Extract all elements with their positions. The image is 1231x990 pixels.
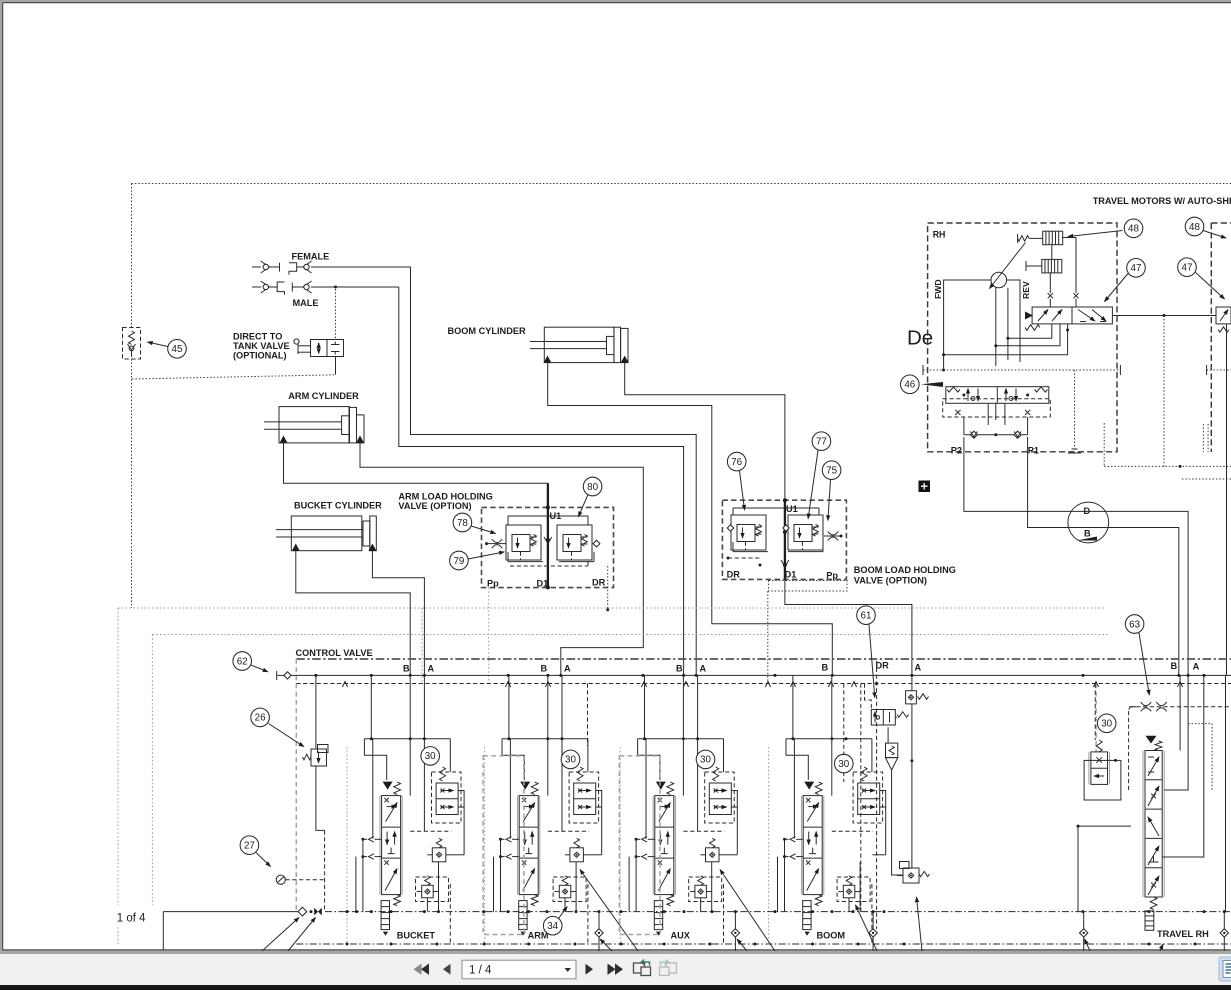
- label 26: [251, 708, 304, 746]
- svg-text:BUCKET: BUCKET: [397, 931, 436, 941]
- svg-text:Pp: Pp: [487, 578, 499, 588]
- svg-text:FWD: FWD: [933, 279, 943, 299]
- cylinder BUCKET: [276, 501, 382, 551]
- svg-text:A: A: [564, 664, 571, 674]
- svg-text:Pp: Pp: [826, 570, 838, 580]
- svg-text:De: De: [907, 327, 933, 350]
- wire 47 output to LH: [1112, 314, 1216, 466]
- svg-text:47: 47: [1182, 263, 1193, 274]
- wire dotted circuit boundary top: [132, 184, 1231, 609]
- wires 46 to check row: [964, 403, 1028, 434]
- label 47 RH: [1105, 259, 1146, 302]
- wire gray dotted rail y=608: [118, 608, 1105, 944]
- valve section BUCKET: [347, 675, 465, 944]
- plus marker icon: [919, 481, 931, 493]
- wire male coupler to aux B: [399, 287, 684, 675]
- valve section ARM: [485, 675, 602, 944]
- wire BLHV D1 to boom A port: [785, 579, 912, 675]
- svg-text:45: 45: [172, 344, 183, 355]
- svg-text:(OPTIONAL): (OPTIONAL): [233, 351, 287, 361]
- label 46: [901, 375, 944, 394]
- wire arm cyl right port: [360, 443, 643, 675]
- label 30 arm: [561, 750, 580, 769]
- svg-text:78: 78: [457, 518, 468, 529]
- valve 47 auto-shift RH: [1025, 307, 1112, 330]
- label 75: [822, 461, 841, 521]
- travel motor LH partial: [1104, 223, 1231, 675]
- svg-text:79: 79: [453, 556, 464, 567]
- label 30 aux: [696, 750, 715, 769]
- label 27: [240, 836, 270, 867]
- wire BLHV dotted sub-box: [768, 581, 847, 684]
- labels P2 P1: [951, 445, 1039, 455]
- valve 61a check on boom A line: [906, 675, 929, 868]
- svg-text:80: 80: [587, 482, 598, 493]
- wire boom cyl right port to BLHV U1: [625, 363, 785, 500]
- wires BLHV internals: [727, 508, 824, 567]
- svg-text:BOOM: BOOM: [817, 931, 846, 941]
- label 30 travel: [1097, 714, 1116, 733]
- valve check block right (80): [557, 525, 592, 560]
- coupler MALE: [252, 281, 399, 308]
- svg-text:47: 47: [1131, 263, 1142, 274]
- svg-text:D: D: [1084, 506, 1091, 516]
- valve 26 pilot reducing: [303, 675, 329, 911]
- svg-text:AUX: AUX: [671, 931, 691, 941]
- svg-text:B: B: [1171, 661, 1178, 671]
- label 63: [1125, 615, 1149, 695]
- svg-text:B: B: [822, 663, 829, 673]
- travel motor RH dash-dot box: [928, 223, 1117, 452]
- wire gray dotted rail y=634.5: [152, 635, 1110, 912]
- svg-text:VALVE (OPTION): VALVE (OPTION): [398, 501, 471, 511]
- throttles 63: [1129, 702, 1231, 790]
- svg-text:30: 30: [425, 751, 436, 762]
- svg-text:30: 30: [565, 755, 576, 766]
- valve section BOOM: [769, 675, 887, 944]
- svg-text:A: A: [700, 664, 707, 674]
- label TRAVEL MOTORS W/ AUTO-SHIFT: [1093, 196, 1231, 206]
- svg-text:26: 26: [255, 713, 266, 724]
- wire dotted pilot rail y=370: [923, 365, 1120, 453]
- wire boom drain dashed: [860, 684, 862, 912]
- svg-text:1 of 4: 1 of 4: [117, 913, 146, 925]
- check row P1 P2: [964, 431, 1028, 438]
- brake spring 2 (48): [1026, 259, 1062, 273]
- label 78: [453, 513, 495, 533]
- wire gray dotted stubs: [422, 608, 1096, 752]
- svg-text:TANK VALVE: TANK VALVE: [233, 341, 290, 351]
- valve section AUX: [620, 675, 738, 944]
- wire bucket cyl left port: [296, 551, 410, 675]
- valve check block left (76): [731, 515, 766, 550]
- label 47 LH: [1178, 258, 1225, 299]
- wire boom DR dashed: [875, 661, 878, 929]
- next page button: [586, 964, 594, 975]
- svg-text:76: 76: [731, 457, 742, 468]
- label ARM LOAD HOLDING VALVE (OPTION): [398, 492, 492, 511]
- leader arrows from bottom edge: [262, 870, 1163, 952]
- valve U1 arm load holding (dashed box): [482, 507, 614, 588]
- svg-text:ARM CYLINDER: ARM CYLINDER: [288, 391, 359, 401]
- label DIRECT TO TANK VALVE (OPTIONAL): [233, 332, 290, 361]
- first page button: [414, 964, 430, 975]
- valve direct-to-tank (2-position): [294, 339, 344, 357]
- svg-text:BOOM LOAD HOLDING: BOOM LOAD HOLDING: [854, 565, 956, 575]
- label REV: [1021, 281, 1031, 299]
- svg-text:48: 48: [1189, 222, 1200, 233]
- svg-text:U1: U1: [786, 504, 798, 514]
- svg-text:DR: DR: [592, 578, 606, 588]
- svg-text:P2: P2: [951, 445, 962, 455]
- svg-text:63: 63: [1129, 619, 1140, 630]
- cylinder BOOM: [448, 326, 629, 363]
- throttle X marks above valve 47: [1048, 238, 1079, 308]
- label 61: [857, 606, 876, 698]
- valve 30 travel check: [1084, 684, 1121, 800]
- last page button: [608, 964, 624, 975]
- wires motor RH frame: [942, 280, 1020, 372]
- svg-text:BUCKET CYLINDER: BUCKET CYLINDER: [294, 501, 382, 511]
- svg-text:VALVE (OPTION): VALVE (OPTION): [854, 576, 927, 586]
- valve 46 travel control: [946, 387, 1049, 404]
- valve check block left (78/79): [506, 525, 541, 560]
- gauge 27: [276, 875, 324, 884]
- label 48 RH: [1068, 219, 1143, 238]
- wire BLHV D1 bold through-line: [781, 498, 789, 579]
- svg-text:REV: REV: [1021, 281, 1031, 299]
- svg-text:P1: P1: [1028, 445, 1039, 455]
- throttle 78 symbol: [485, 539, 506, 548]
- svg-text:B: B: [676, 664, 683, 674]
- svg-text:TRAVEL MOTORS W/ AUTO-SHIFT: TRAVEL MOTORS W/ AUTO-SHIFT: [1093, 196, 1231, 206]
- label 79: [450, 551, 505, 570]
- wire ALHV D1 bold through-line: [544, 505, 552, 589]
- label 62: [233, 652, 268, 672]
- wire P1 to travel B: [1028, 437, 1179, 675]
- svg-text:30: 30: [1101, 719, 1112, 730]
- svg-text:TRAVEL RH: TRAVEL RH: [1157, 929, 1209, 939]
- node D/B drum: [1068, 502, 1109, 543]
- gray dashed option box aux: [619, 756, 660, 935]
- cylinder ARM: [264, 391, 364, 443]
- svg-text:A: A: [428, 664, 435, 674]
- svg-text:FEMALE: FEMALE: [292, 252, 330, 262]
- label 30 bucket: [421, 747, 440, 766]
- wire P2 to travel A: [964, 437, 1188, 675]
- gray dashed option box arm: [483, 756, 524, 935]
- brake spring 1 (48): [1018, 231, 1063, 245]
- wire ALHV Pp dotted drop: [488, 588, 490, 684]
- wire arm DR dashed: [587, 684, 589, 747]
- wire boom A dots: [910, 759, 913, 762]
- svg-text:A: A: [915, 663, 922, 673]
- label 45: [148, 340, 187, 359]
- label FWD: [933, 279, 943, 299]
- svg-text:30: 30: [700, 755, 711, 766]
- port labels B/A: [403, 661, 1200, 674]
- prev page button: [443, 964, 451, 975]
- wire ALHV DR dotted drop: [606, 566, 609, 611]
- sidebar icon right: [1219, 957, 1231, 981]
- svg-text:62: 62: [237, 656, 248, 667]
- svg-text:75: 75: [826, 466, 837, 477]
- svg-text:48: 48: [1128, 224, 1139, 235]
- wire female coupler to aux A: [411, 267, 697, 675]
- wire main port rail y=675.4: [277, 671, 1231, 680]
- svg-text:RH: RH: [933, 230, 946, 240]
- label CONTROL VALVE: [296, 648, 373, 658]
- wire bottom rail y=911.6: [163, 907, 1231, 950]
- control valve dash-dot boundary: [296, 659, 1231, 912]
- motor RH circle: [990, 243, 1026, 289]
- svg-text:34: 34: [547, 921, 558, 932]
- label 30 boom: [835, 754, 854, 773]
- label TRAVEL RH: [1157, 929, 1209, 939]
- svg-text:BOOM CYLINDER: BOOM CYLINDER: [448, 326, 526, 336]
- wire black dashed pilot rail y=683.5: [296, 682, 1231, 688]
- label 34: [543, 907, 567, 935]
- valve 61 unload: [865, 684, 909, 876]
- svg-text:DR: DR: [727, 570, 741, 580]
- svg-text:61: 61: [861, 611, 872, 622]
- throttle 75 symbol: [824, 531, 843, 540]
- valve check block right (77): [788, 515, 823, 550]
- wire tank valve pilot/drain: [132, 289, 336, 379]
- valve travel RH spool: [1143, 736, 1164, 931]
- svg-text:DIRECT TO: DIRECT TO: [233, 332, 282, 342]
- wires 47 pilot rows: [944, 324, 1070, 355]
- wires ALHV internals: [508, 516, 600, 566]
- valve 46 dashed pilot sub-box: [943, 399, 1051, 417]
- previous view icon: [634, 960, 651, 976]
- label BOOM LOAD HOLDING VALVE (OPTION): [854, 565, 956, 585]
- wire boom cyl left port: [548, 363, 833, 675]
- valve boom load holding (dashed box): [722, 500, 846, 580]
- svg-text:MALE: MALE: [293, 298, 319, 308]
- label 77: [808, 432, 831, 519]
- svg-text:B: B: [403, 664, 410, 674]
- label 1 of 4: [110, 905, 154, 925]
- valve 61b small: [897, 862, 930, 884]
- svg-text:30: 30: [838, 759, 849, 770]
- svg-text:B: B: [541, 664, 548, 674]
- label 76: [727, 452, 746, 510]
- label 80: [578, 477, 601, 517]
- svg-text:B: B: [1084, 529, 1091, 539]
- wire arm cyl left port to ALHV D1 (bold): [284, 443, 548, 507]
- svg-text:A: A: [1193, 662, 1200, 672]
- coupler FEMALE: [252, 252, 411, 275]
- svg-text:77: 77: [816, 437, 827, 448]
- svg-text:1 / 4: 1 / 4: [469, 965, 492, 977]
- svg-text:27: 27: [244, 841, 255, 852]
- wire bottom rail y=944: [296, 943, 1231, 946]
- check nodes on section drains: [595, 912, 1229, 951]
- svg-text:D1: D1: [785, 570, 797, 580]
- next view icon (disabled): [660, 960, 677, 976]
- svg-text:46: 46: [904, 380, 915, 391]
- valve 45 (make-up check, dashed box): [123, 328, 141, 360]
- wires travel section: [1077, 675, 1226, 911]
- watermark De: [907, 327, 933, 350]
- wire bucket cyl right port: [372, 551, 424, 675]
- label 48 LH: [1185, 217, 1226, 238]
- page number combo: [462, 960, 576, 979]
- svg-text:CONTROL VALVE: CONTROL VALVE: [296, 648, 373, 658]
- svg-text:DR: DR: [876, 661, 890, 671]
